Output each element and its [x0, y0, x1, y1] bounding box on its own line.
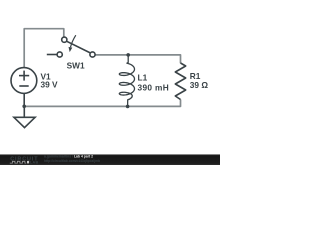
junction dot (top of L1) — [126, 53, 130, 57]
svg-text:LAB: LAB — [30, 161, 39, 165]
svg-text:http://circuitlab.com/c443q5po: http://circuitlab.com/c443q5pozljmb — [44, 159, 100, 163]
watermark logo wave + LAB — [10, 161, 39, 165]
ground — [14, 106, 35, 127]
svg-text:39 V: 39 V — [41, 80, 59, 90]
junction dot (V1/ground node) — [22, 105, 26, 109]
switch arrow head — [69, 47, 73, 52]
wire (bottom rail) — [24, 100, 180, 107]
voltage source V1 — [11, 68, 37, 107]
svg-text:SW1: SW1 — [67, 60, 85, 70]
inductor L1 — [119, 55, 134, 107]
switch SW1 — [47, 35, 95, 57]
junction dot (bottom of L1) — [126, 105, 130, 109]
resistor R1 — [175, 63, 185, 100]
svg-text:L1: L1 — [138, 72, 148, 82]
svg-text:390 mH: 390 mH — [138, 83, 170, 93]
svg-text:39 Ω: 39 Ω — [190, 80, 209, 90]
wire (switch to R1 top) — [95, 55, 180, 63]
wire (V1 top to switch) — [24, 29, 64, 68]
